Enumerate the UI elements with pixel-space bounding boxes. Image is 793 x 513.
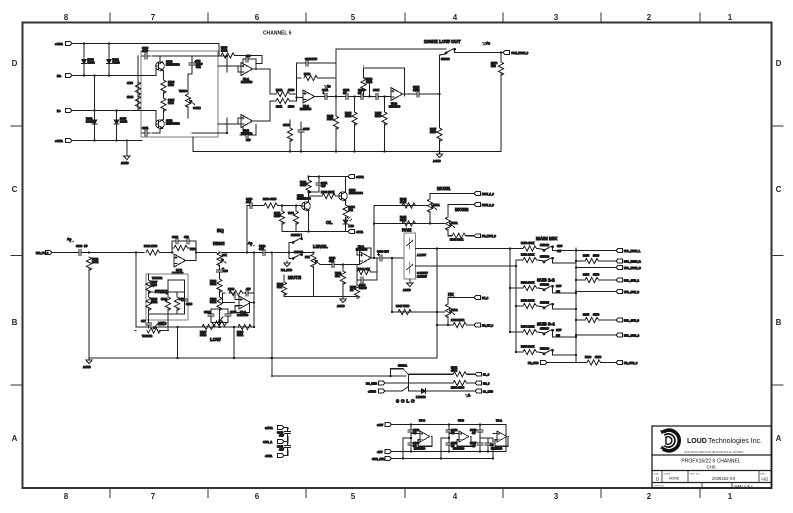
wire (94, 76, 96, 118)
wire lowcut switch riser (439, 55, 441, 128)
wire U2 out (315, 96, 323, 98)
ground pan (403, 279, 413, 292)
wire (83, 44, 85, 58)
svg-text:1K00: 1K00 (595, 355, 602, 359)
svg-text:4K99: 4K99 (458, 385, 465, 389)
capacitor C22 eq fb (184, 235, 192, 244)
capacitor C20 input (76, 244, 87, 256)
out row 6: wire (576, 319, 585, 321)
svg-text:CH6: CH6 (706, 465, 715, 470)
svg-text:GND_AUD: GND_AUD (372, 457, 385, 461)
EQ bottom wire (136, 326, 254, 328)
wire (191, 56, 193, 60)
svg-text:S O L O: S O L O (396, 399, 415, 404)
terminal +15V buf (377, 423, 392, 427)
svg-text:47P: 47P (246, 138, 251, 142)
svg-text:10K0: 10K0 (430, 130, 437, 134)
wire U8 (493, 425, 509, 452)
svg-text:50KA: 50KA (451, 308, 458, 312)
capacitor C12 shunt rail (298, 127, 310, 135)
svg-text:A: A (776, 434, 782, 443)
junction dots (479, 423, 494, 459)
svg-text:2036162-XX: 2036162-XX (712, 476, 735, 481)
svg-text:SW30A: SW30A (398, 364, 407, 368)
wire mon2 pot (448, 205, 474, 236)
svg-text:100K: 100K (528, 241, 534, 245)
preamp common rail (193, 151, 501, 153)
wire level pot (313, 266, 315, 296)
svg-text:4U7: 4U7 (279, 434, 284, 438)
wire (538, 260, 545, 261)
wire (255, 205, 264, 207)
svg-text:FD_MON_6: FD_MON_6 (482, 234, 496, 238)
svg-text:470P: 470P (311, 57, 317, 61)
wire (161, 252, 174, 254)
resistor R59 (583, 313, 600, 323)
wire mute lower (289, 253, 302, 259)
svg-text:MUTE: MUTE (288, 275, 301, 280)
capacitor C2 470P (142, 126, 150, 136)
svg-text:100K: 100K (92, 260, 98, 264)
wire shunt to ground rail (88, 269, 90, 358)
resistor R8 fb (304, 72, 318, 81)
svg-text:100K: 100K (528, 345, 534, 349)
wire (538, 249, 545, 250)
svg-text:HIGH: HIGH (213, 241, 225, 246)
wire (602, 362, 617, 364)
polarized capacitor C23 (217, 267, 228, 275)
svg-text:100K: 100K (528, 325, 534, 329)
terminal GND buf (372, 457, 392, 461)
svg-text:DWG. NO.: DWG. NO. (690, 474, 701, 476)
svg-text:10U: 10U (246, 200, 251, 204)
junction dot (342, 263, 344, 265)
svg-text:LED: LED (349, 224, 354, 228)
resistor R14 shunt rail (283, 123, 293, 142)
svg-text:R338: R338 (228, 287, 235, 291)
svg-text:R343: R343 (358, 267, 365, 271)
feedback wire U1A (238, 59, 256, 72)
feedback loop fader (357, 258, 377, 280)
svg-text:R311: R311 (276, 105, 283, 109)
terminal FX out (474, 296, 489, 300)
svg-text:R352: R352 (521, 281, 528, 285)
terminal J3 MIC- (57, 109, 72, 113)
junction dots input grid (83, 42, 128, 141)
ground rail buffers (392, 458, 494, 460)
op-amp U3 (389, 88, 403, 109)
svg-text:BD_GND: BD_GND (366, 381, 377, 385)
wire solo row2 (385, 382, 453, 384)
svg-text:3: 3 (554, 492, 559, 501)
pan module box (404, 233, 416, 279)
svg-text:R312: R312 (304, 72, 311, 76)
terminal -15V buf (377, 450, 392, 454)
junction dots buses (509, 247, 517, 353)
svg-text:R330: R330 (263, 197, 270, 201)
svg-text:LOUD: LOUD (687, 438, 707, 445)
op-amp U5 low band (237, 296, 251, 317)
svg-text:PRL_MAIN_L: PRL_MAIN_L (624, 249, 641, 253)
resistor R54 (521, 325, 537, 335)
feedback loop wire U3 (364, 66, 405, 97)
junction dots rail (176, 357, 273, 359)
wire (335, 97, 337, 117)
wire (289, 120, 291, 128)
op-amp U1A (241, 63, 253, 85)
wire fader in (357, 248, 371, 265)
junction dot (500, 51, 502, 53)
junction dots (402, 423, 412, 459)
wire filter chain (351, 96, 358, 98)
svg-text:4U7: 4U7 (279, 448, 284, 452)
svg-text:220PF: 220PF (359, 286, 367, 290)
wire (152, 132, 160, 134)
svg-text:47K: 47K (365, 267, 370, 271)
svg-text:Ag: Ag (486, 41, 490, 45)
svg-text:50KA: 50KA (451, 221, 458, 225)
wire Q3 (300, 205, 303, 207)
svg-text:R353: R353 (521, 299, 528, 303)
feedback resistor R43 (357, 267, 371, 275)
svg-text:RA2B: RA2B (113, 61, 120, 65)
wire long riser to solo rail (271, 253, 273, 377)
terminal SUB_3 (616, 318, 640, 322)
svg-text:CHANNEL 6: CHANNEL 6 (263, 31, 292, 37)
zone labels left (12, 59, 18, 443)
junction dot (226, 55, 298, 134)
terminal -15V OL (348, 230, 363, 234)
svg-text:1K00: 1K00 (151, 244, 158, 248)
terminal J1 +48V (55, 42, 72, 46)
svg-text:INS_PU_6: INS_PU_6 (36, 251, 49, 255)
wire U7B (449, 433, 471, 446)
terminal INS_PU_6 (36, 251, 52, 255)
svg-text:A: A (12, 434, 18, 443)
resistor R47 fx (396, 304, 412, 315)
terminal J2 MIC+ (57, 74, 72, 78)
wire mon1 pot (430, 194, 474, 224)
svg-text:NJM4580: NJM4580 (241, 80, 253, 84)
junction dots filter (353, 95, 385, 97)
diode D1 (82, 57, 95, 66)
svg-text:MAIN MIX: MAIN MIX (536, 236, 558, 241)
fader common rail (284, 295, 357, 297)
wire gain pot (187, 74, 189, 94)
out row 5: wire (576, 291, 616, 293)
capacitor C21 eq fb (172, 235, 181, 244)
polarized capacitor C7 output (322, 88, 330, 100)
title block (652, 426, 772, 488)
svg-text:10K0: 10K0 (274, 214, 281, 218)
wire fx pot top (448, 298, 474, 305)
svg-text:1K00: 1K00 (288, 105, 295, 109)
svg-text:16220 WOOD-RED ROAD NE WOODIN: 16220 WOOD-RED ROAD NE WOODINVILLE, WA 9… (684, 451, 744, 454)
svg-text:47K: 47K (335, 274, 340, 278)
resistor R5 (161, 98, 175, 112)
feedback loop U2 (297, 63, 337, 97)
capacitor C41 (277, 443, 291, 452)
junction dot (281, 204, 297, 206)
wire stage1 (403, 425, 411, 459)
resistor R61 solo L (451, 366, 467, 377)
OL bottom rail (282, 231, 348, 233)
svg-text:+15V: +15V (377, 423, 383, 427)
diode D3 (86, 117, 97, 127)
svg-text:Technologies Inc.: Technologies Inc. (708, 438, 762, 445)
svg-text:SW30E: SW30E (540, 301, 549, 305)
svg-text:562: 562 (349, 208, 354, 212)
svg-text:R347: R347 (396, 304, 403, 308)
capacitor C29 OL (316, 180, 328, 188)
svg-text:AGND: AGND (121, 161, 129, 165)
svg-text:NJM4580: NJM4580 (491, 447, 503, 451)
frame tick marks left (11, 126, 23, 385)
resistor R29 mid (161, 297, 171, 311)
riser EQ to rail right (233, 327, 235, 358)
terminal SUB_1 (616, 278, 640, 282)
svg-text:NJM4580: NJM4580 (453, 447, 465, 451)
svg-text:3K01: 3K01 (210, 282, 217, 286)
polarized capacitor C35 post fader (377, 250, 389, 262)
resistor R30 mid (174, 297, 185, 311)
svg-text:RA2B: RA2B (120, 120, 127, 124)
analog ground ref input (67, 237, 74, 242)
svg-text:EQ: EQ (217, 228, 224, 233)
wire mid cluster (149, 274, 185, 320)
buffer stage 2 caps C44 C45 (446, 427, 458, 435)
row main R: wire (516, 259, 523, 261)
pan pot upper (407, 238, 414, 249)
ground rail B (89, 357, 437, 359)
svg-text:47P: 47P (141, 319, 146, 323)
switch SW3 mute lower (292, 250, 303, 259)
svg-text:51K: 51K (277, 285, 282, 289)
svg-text:VR300: VR300 (179, 89, 187, 93)
junction dot solo rail (270, 357, 391, 377)
svg-text:Ag: Ag (327, 84, 331, 88)
svg-text:1K00: 1K00 (593, 254, 600, 258)
svg-text:FX_6: FX_6 (482, 296, 489, 300)
svg-text:R350: R350 (521, 241, 528, 245)
svg-text:47U: 47U (329, 259, 334, 263)
svg-text:PRL_MAIN_R: PRL_MAIN_R (624, 259, 641, 263)
svg-text:C335: C335 (377, 250, 384, 254)
svg-text:47U: 47U (223, 269, 228, 273)
svg-text:GND_A: GND_A (263, 440, 272, 444)
wire U7A (411, 433, 432, 446)
svg-text:AGND: AGND (83, 365, 91, 369)
wire (236, 55, 263, 57)
potentiometer MON2 (445, 217, 457, 231)
svg-text:1K00: 1K00 (288, 88, 295, 92)
svg-text:1U: 1U (358, 91, 361, 95)
switch SW main L (540, 243, 563, 253)
wire solo row3 (385, 390, 402, 392)
capacitor C5 47P feedback (243, 132, 251, 142)
potentiometer LOW (213, 317, 227, 326)
resistor R50 (521, 241, 537, 251)
svg-text:U5-D: U5-D (458, 419, 464, 423)
terminal MON_1 (474, 192, 494, 196)
wire (384, 97, 386, 113)
resistor R7 summing bottom (276, 98, 295, 108)
capacitor C25 low (225, 310, 237, 319)
wire eq out (186, 253, 217, 261)
wire (428, 390, 475, 392)
left feed bus R (515, 260, 517, 352)
out row 3: wire (576, 267, 616, 269)
wire emitter chain (163, 71, 165, 81)
svg-text:PRL_SUB_2: PRL_SUB_2 (624, 290, 640, 294)
wire (300, 122, 302, 127)
svg-text:NJM4580: NJM4580 (389, 105, 401, 109)
junction dots (308, 175, 321, 232)
svg-text:4K75: 4K75 (283, 123, 290, 127)
resistor R53 (521, 299, 537, 309)
terminal SL_LED (475, 389, 493, 393)
wire (468, 324, 475, 326)
wire (342, 265, 344, 272)
wire conn bus (284, 428, 288, 456)
wire (409, 390, 420, 392)
svg-text:OFF: OFF (557, 244, 563, 248)
svg-text:VR50KB: VR50KB (152, 276, 162, 280)
wire solo jog (391, 369, 404, 376)
wire (283, 275, 285, 282)
capacitor C26 mid (182, 296, 193, 306)
svg-text:8: 8 (64, 492, 69, 501)
polarized capacitor C11 (413, 85, 422, 97)
wire (538, 352, 545, 353)
eq fb wire (172, 241, 196, 253)
svg-text:RA2B: RA2B (86, 120, 93, 124)
resistor R26 low right (237, 324, 252, 337)
svg-text:C311: C311 (322, 88, 329, 92)
potentiometer GAIN (179, 89, 201, 110)
svg-text:OFF: OFF (556, 328, 562, 332)
resistor R27 freq (146, 280, 158, 294)
svg-text:D: D (776, 59, 782, 68)
wire LED to rail (345, 216, 347, 219)
wire lowcut top (336, 48, 446, 50)
op-amp U4 EQ (172, 254, 186, 275)
capacitor C29b low fb (243, 287, 251, 296)
svg-text:R356: R356 (583, 254, 590, 258)
wire Q4 (345, 177, 347, 192)
svg-text:3K01: 3K01 (237, 333, 244, 337)
svg-text:1U: 1U (84, 244, 87, 248)
switch SW1 lowcut (441, 49, 455, 62)
transistor Q4 OL (339, 188, 363, 201)
wire (116, 111, 118, 118)
wire high pot (219, 265, 221, 267)
resistor R62 solo R (451, 380, 467, 389)
svg-text:R355: R355 (521, 345, 528, 349)
svg-text:C: C (776, 185, 782, 194)
svg-text:VR10KB: VR10KB (142, 334, 152, 338)
analog ground ref lowcut (482, 41, 490, 45)
svg-text:2K32: 2K32 (345, 114, 352, 118)
wire to rail (439, 140, 441, 152)
svg-text:MON_2_6: MON_2_6 (482, 203, 494, 207)
svg-text:R351: R351 (521, 253, 528, 257)
svg-text:MON_1_6: MON_1_6 (482, 192, 494, 196)
feedback wire U1B (238, 118, 256, 135)
svg-text:GAIN: GAIN (193, 106, 201, 110)
svg-text:51B: 51B (491, 64, 496, 68)
out row 1: wire (576, 250, 616, 252)
svg-text:47K5: 47K5 (270, 197, 277, 201)
capacitor C6 470P fb (303, 57, 317, 66)
polarized capacitor C33 (329, 256, 337, 268)
svg-text:DWG FILE: DWG FILE (654, 486, 665, 488)
junction dot (287, 440, 289, 442)
zone labels top (64, 13, 733, 22)
solo pole bus (408, 374, 410, 391)
svg-text:SL_6: SL_6 (483, 373, 490, 377)
svg-text:100KAF: 100KAF (417, 275, 427, 279)
resistor R40 mute pulldown (277, 282, 287, 296)
svg-text:AGND: AGND (403, 288, 411, 292)
svg-text:AGND: AGND (433, 159, 441, 163)
wire input (52, 252, 76, 254)
diode D5 solo led (416, 389, 428, 399)
wire load to rail (500, 53, 502, 63)
capacitor C40 (277, 429, 291, 438)
svg-text:R359: R359 (583, 313, 590, 317)
svg-text:Ag: Ag (248, 241, 252, 245)
wire low caps (211, 309, 228, 323)
op-amp U8 buffer (491, 419, 507, 451)
svg-text:B: B (12, 318, 18, 327)
terminal SL_6 (475, 372, 490, 376)
ground fader rail (337, 296, 346, 308)
MID FREQ module box (146, 274, 188, 320)
svg-text:SUB 1-2: SUB 1-2 (537, 278, 555, 283)
wire OL riser (246, 206, 248, 253)
terminal +15V conn (265, 426, 284, 430)
svg-text:OFF: OFF (556, 284, 562, 288)
resistor R55 (521, 345, 537, 355)
potentiometer HIGH (217, 253, 227, 267)
out row 8 FD_SUB: terminal left (528, 361, 547, 365)
terminal SR_6 (475, 381, 490, 385)
wire opamp outputs to summing (253, 69, 304, 121)
riser EQ to rail left (177, 327, 179, 358)
capacitor C32 series (259, 244, 268, 256)
wire (108, 44, 110, 58)
terminal GND conn (263, 440, 284, 444)
svg-text:PRL_SUB_1: PRL_SUB_1 (624, 278, 640, 282)
capacitor C8 (343, 88, 351, 100)
wire (219, 309, 221, 322)
wire EQ right riser (253, 253, 255, 328)
wire +48V rail (72, 43, 219, 45)
svg-text:IN-: IN- (57, 109, 61, 113)
resistor R10 shunt (345, 111, 357, 126)
svg-text:4U: 4U (472, 444, 475, 448)
svg-text:R348: R348 (451, 318, 458, 322)
wire fx pot bottom (437, 316, 453, 325)
junction dots (373, 257, 393, 259)
svg-text:6650: 6650 (168, 101, 174, 105)
zone labels bottom (64, 492, 733, 501)
svg-text:SUB 3-4: SUB 3-4 (537, 322, 555, 327)
switch SW sub1 (540, 283, 562, 294)
svg-text:50KA: 50KA (433, 203, 440, 207)
svg-text:-15V: -15V (377, 450, 383, 454)
